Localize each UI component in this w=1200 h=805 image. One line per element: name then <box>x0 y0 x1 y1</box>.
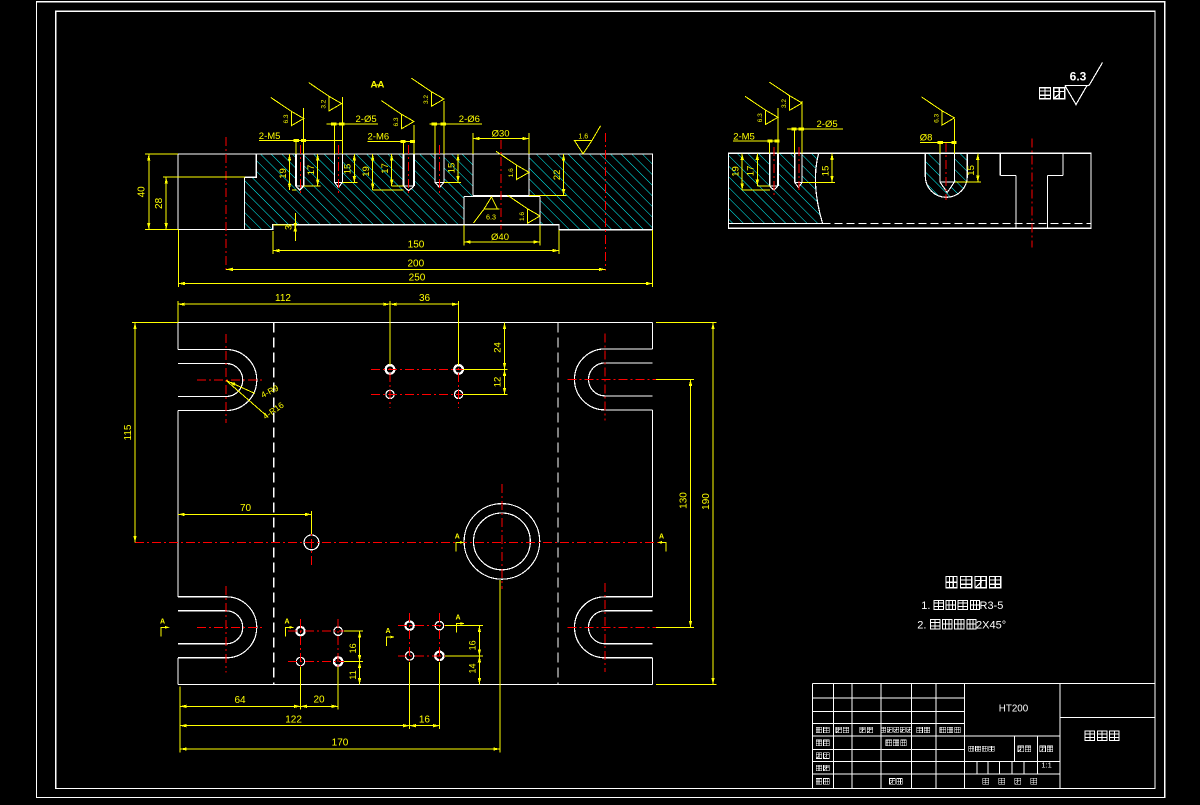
svg-text:3.2: 3.2 <box>781 99 788 108</box>
svg-text:11: 11 <box>348 670 358 679</box>
svg-text:6.3: 6.3 <box>283 114 290 123</box>
svg-text:20: 20 <box>313 694 325 705</box>
svg-text:2-Ø6: 2-Ø6 <box>459 114 480 125</box>
svg-text:36: 36 <box>419 293 431 304</box>
svg-text:112: 112 <box>275 293 291 304</box>
svg-text:250: 250 <box>409 273 426 284</box>
svg-text:19: 19 <box>278 168 289 179</box>
svg-text:6.3: 6.3 <box>393 117 400 126</box>
svg-text:3.2: 3.2 <box>321 99 328 108</box>
svg-text:17: 17 <box>746 166 757 177</box>
svg-text:A: A <box>455 533 460 540</box>
svg-text:R3-5: R3-5 <box>980 600 1004 612</box>
svg-text:40: 40 <box>137 186 148 198</box>
svg-text:1.6: 1.6 <box>519 212 526 221</box>
svg-text:1.: 1. <box>921 600 930 612</box>
svg-text:64: 64 <box>234 695 246 706</box>
svg-text:15: 15 <box>343 164 354 175</box>
svg-text:16: 16 <box>419 714 431 725</box>
svg-text:2-Ø5: 2-Ø5 <box>817 119 838 130</box>
svg-text:2-Ø5: 2-Ø5 <box>356 114 377 125</box>
svg-text:6.3: 6.3 <box>934 114 941 123</box>
svg-text:14: 14 <box>468 663 478 673</box>
svg-text:A: A <box>160 618 165 625</box>
svg-text:Ø40: Ø40 <box>491 232 509 243</box>
svg-text:115: 115 <box>123 424 134 440</box>
svg-text:1.6: 1.6 <box>508 168 515 177</box>
svg-text:16: 16 <box>468 640 478 650</box>
svg-text:19: 19 <box>731 166 742 177</box>
svg-text:6.3: 6.3 <box>1070 70 1087 84</box>
svg-text:130: 130 <box>679 492 690 509</box>
svg-text:HT200: HT200 <box>999 704 1029 715</box>
svg-text:A-A: A-A <box>371 80 385 91</box>
svg-text:6.3: 6.3 <box>757 113 764 122</box>
svg-text:1.6: 1.6 <box>578 134 588 141</box>
svg-text:22: 22 <box>552 170 563 181</box>
svg-text:150: 150 <box>408 240 425 251</box>
svg-text:17: 17 <box>306 165 317 176</box>
svg-text:70: 70 <box>240 503 252 514</box>
svg-text:12: 12 <box>493 377 504 388</box>
svg-text:15: 15 <box>446 163 457 174</box>
svg-text:A: A <box>385 628 390 635</box>
svg-text:16: 16 <box>348 643 358 653</box>
svg-text:200: 200 <box>407 258 424 269</box>
svg-text:3: 3 <box>284 225 294 230</box>
svg-text:2.: 2. <box>917 620 926 632</box>
svg-text:15: 15 <box>966 165 977 176</box>
svg-text:24: 24 <box>493 342 504 353</box>
svg-text:19: 19 <box>361 166 372 177</box>
svg-text:1:1: 1:1 <box>1041 761 1051 770</box>
svg-text:6.3: 6.3 <box>486 213 496 222</box>
svg-text:A: A <box>659 533 664 540</box>
svg-text:Ø8: Ø8 <box>920 132 933 143</box>
svg-text:17: 17 <box>380 163 391 174</box>
svg-text:190: 190 <box>701 493 712 510</box>
svg-text:122: 122 <box>285 714 302 725</box>
svg-text:A: A <box>284 618 289 625</box>
svg-text:Ø30: Ø30 <box>492 128 510 139</box>
svg-text:A: A <box>455 615 460 622</box>
svg-text:170: 170 <box>332 738 349 749</box>
svg-text:2X45°: 2X45° <box>976 620 1006 632</box>
svg-text:28: 28 <box>154 197 165 209</box>
svg-text:3.2: 3.2 <box>423 95 430 104</box>
svg-text:15: 15 <box>820 166 831 177</box>
